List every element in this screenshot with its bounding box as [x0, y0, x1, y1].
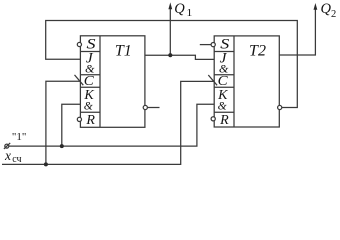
- T1 cell separator C/K: [80, 86, 100, 88]
- svg-text:"1": "1": [12, 131, 26, 143]
- svg-text:Q: Q: [321, 1, 332, 17]
- svg-text:x: x: [4, 148, 11, 163]
- svg-text:сч: сч: [12, 154, 21, 165]
- wire: Q2 output to arrow: [279, 9, 315, 55]
- wire: "1" branch to T1 K-gate & input: [62, 104, 81, 146]
- inversion circle Q-bar T2: [278, 105, 282, 109]
- inversion circle Q-bar T1: [143, 105, 147, 109]
- T1 cell separator &/C: [80, 74, 100, 76]
- svg-text:C: C: [218, 73, 229, 88]
- input terminal circle with slash: [5, 144, 9, 148]
- wire: x-count branch to T1 C input: [46, 81, 81, 164]
- junction dot x-count line: [44, 162, 48, 166]
- junction dot Q1: [168, 53, 172, 57]
- arrowhead Q1: [168, 2, 172, 9]
- dynamic input slash C2: [208, 75, 217, 85]
- T2 cell separator &/R: [214, 111, 234, 113]
- wire: S2 input stub: [200, 44, 212, 46]
- wire: T1 inverted output stub: [147, 107, 160, 109]
- wire: Q1 vertical to arrow: [169, 8, 171, 55]
- inversion circle R1: [77, 117, 81, 121]
- junction dot "1" line: [60, 144, 64, 148]
- inversion circle S2: [211, 43, 215, 47]
- wire: Q1 output run from T1 to J2 step: [145, 55, 214, 59]
- inversion circle S1: [77, 42, 81, 46]
- svg-text:C: C: [84, 73, 95, 88]
- T1 cell separator S/J: [80, 51, 100, 53]
- svg-text:2: 2: [331, 9, 336, 20]
- flip-flop T2 box: [214, 36, 279, 127]
- svg-text:1: 1: [186, 7, 192, 19]
- arrowhead Q2: [314, 3, 318, 10]
- T1 pin-field divider: [99, 36, 101, 128]
- wire: feedback from T2 inverted output to T1 J input: [46, 21, 298, 108]
- svg-text:R: R: [85, 113, 95, 128]
- T2 cell separator C/K: [214, 86, 234, 88]
- svg-text:&: &: [84, 101, 93, 113]
- T2 pin-field divider: [233, 36, 235, 127]
- dynamic input slash C1: [75, 75, 84, 85]
- svg-text:T2: T2: [249, 43, 266, 60]
- wire: "1" bus line: [9, 104, 214, 146]
- T1 cell separator &/R: [80, 111, 100, 113]
- svg-text:T1: T1: [115, 43, 132, 60]
- T2 cell separator S/J: [214, 51, 234, 53]
- T2 cell separator &/C: [214, 74, 234, 76]
- svg-text:&: &: [218, 101, 227, 113]
- wire: x-count bus line: [2, 81, 214, 164]
- svg-text:Q: Q: [174, 1, 185, 17]
- svg-text:R: R: [219, 113, 229, 128]
- flip-flop T1 box: [80, 36, 144, 128]
- inversion circle R2: [211, 117, 215, 121]
